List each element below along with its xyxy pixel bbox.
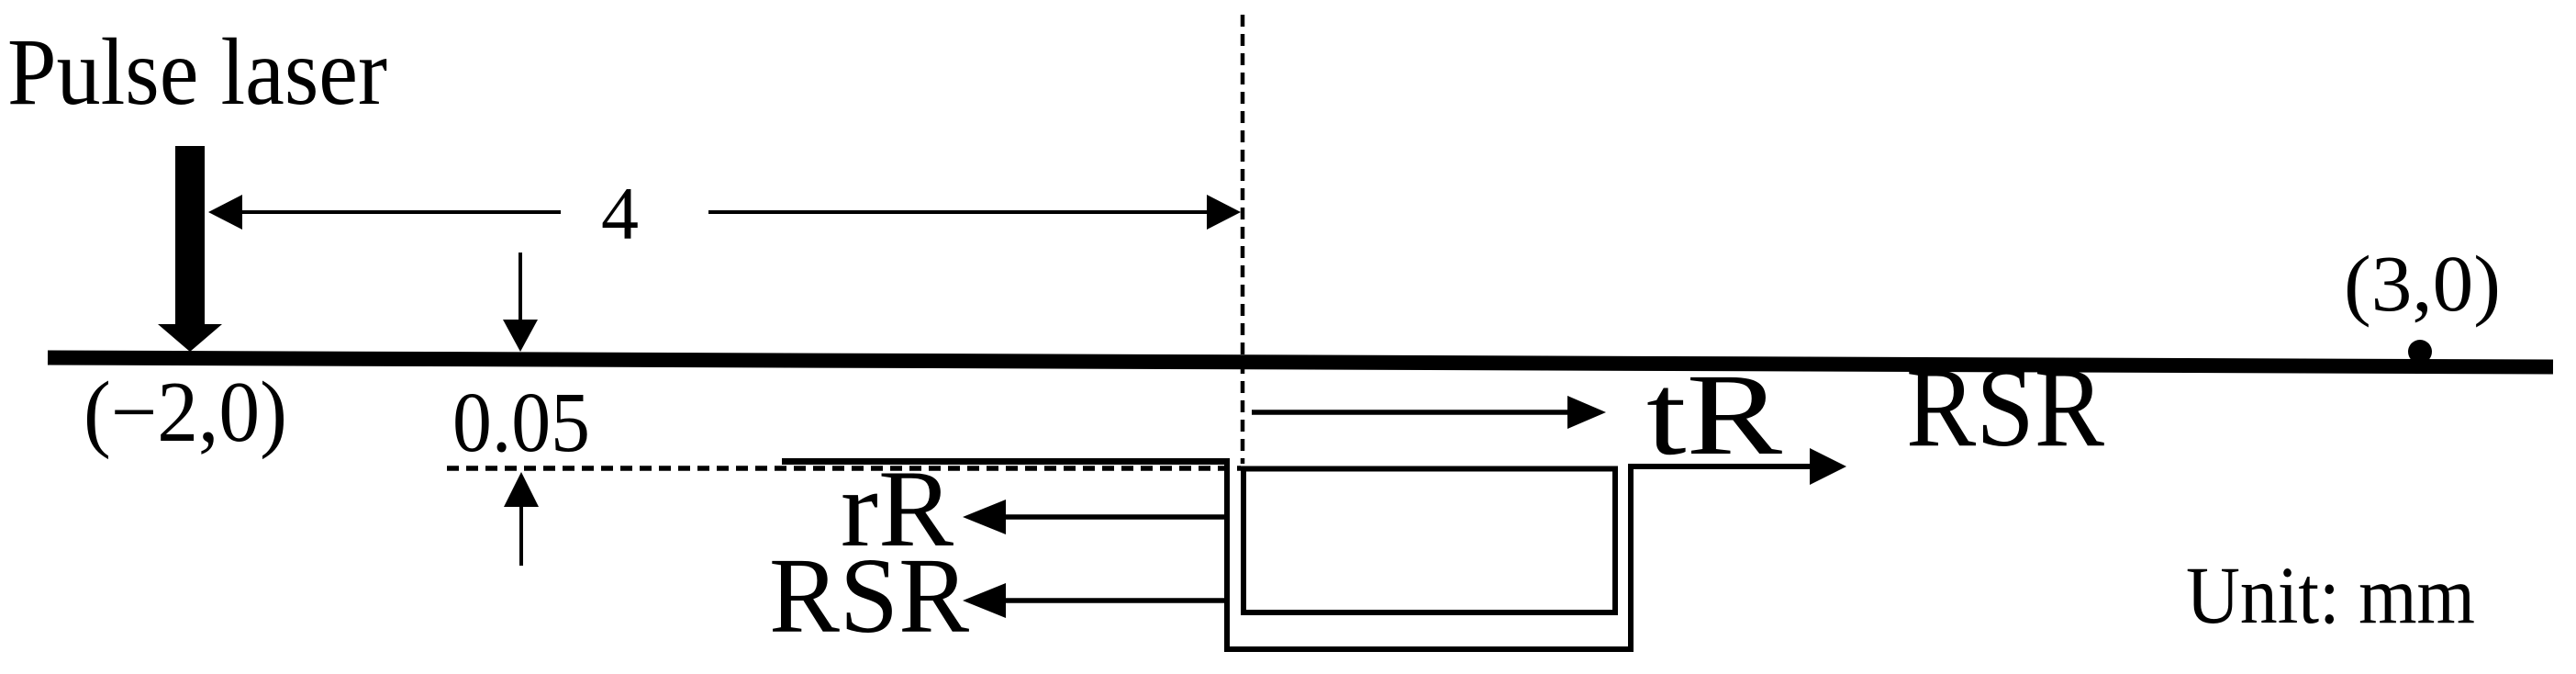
dashed depth line <box>447 466 1241 471</box>
svg-text:(−2,0): (−2,0) <box>84 365 287 460</box>
receiver dot at (3,0) <box>2408 340 2432 364</box>
pulse laser beam arrow <box>158 146 222 352</box>
svg-text:4: 4 <box>601 172 639 255</box>
up tick arrow at x=568 <box>504 472 539 566</box>
plate top line <box>782 458 1230 465</box>
tR arrow (rightward) <box>1252 396 1606 429</box>
specimen surface line <box>48 358 2553 367</box>
svg-text:Unit: mm: Unit: mm <box>2186 551 2475 641</box>
dashed vertical axis at x=1354 <box>1241 15 1245 464</box>
transmitted RSR arrow (rightward) <box>1810 448 1846 485</box>
svg-text:RSR: RSR <box>1906 344 2104 470</box>
rR arrow (leftward) <box>963 500 1227 534</box>
svg-text:RSR: RSR <box>769 535 969 656</box>
down tick arrow at x=567 <box>503 253 538 352</box>
dimension arrow 4 (right segment) <box>708 195 1241 230</box>
svg-text:Pulse laser: Pulse laser <box>7 19 387 125</box>
svg-text:tR: tR <box>1646 351 1782 479</box>
outer cavity walls <box>1227 458 1810 649</box>
RSR arrow (leftward) <box>963 583 1227 618</box>
inner box (defect) <box>1243 469 1615 613</box>
dimension arrow 4 (left segment) <box>208 195 561 230</box>
svg-text:(3,0): (3,0) <box>2344 239 2501 328</box>
svg-text:0.05: 0.05 <box>452 376 590 470</box>
